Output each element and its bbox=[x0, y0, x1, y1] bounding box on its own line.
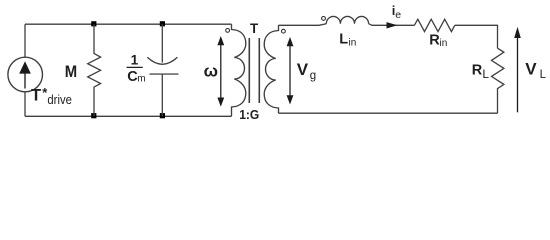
label RL bbox=[472, 62, 490, 81]
wire: left loop top rail bbox=[25, 23, 232, 25]
resistor Rin bbox=[414, 19, 454, 31]
svg-text:ω: ω bbox=[204, 62, 218, 81]
svg-text:V: V bbox=[525, 59, 537, 78]
transformer primary phasing dot bbox=[226, 29, 230, 33]
svg-text:1:G: 1:G bbox=[239, 107, 259, 122]
svg-text:in: in bbox=[440, 38, 448, 49]
Vg double arrow bbox=[287, 37, 294, 105]
capacitor Cm straight plate bbox=[150, 73, 179, 75]
svg-text:1: 1 bbox=[131, 52, 139, 67]
wire: Rin to right corner and down bbox=[455, 25, 498, 48]
transformer secondary phasing dot bbox=[282, 29, 286, 33]
label Vg bbox=[297, 60, 316, 82]
label VL bbox=[525, 59, 546, 81]
inductor Lin bbox=[326, 16, 368, 23]
transformer secondary winding bbox=[264, 25, 278, 113]
inductor Lin terminal circle bbox=[322, 17, 326, 21]
wire: right loop bottom rail bbox=[279, 112, 498, 114]
node: top junction dot at Cm bbox=[160, 21, 165, 26]
label Rin bbox=[429, 32, 447, 48]
current arrow i_e bbox=[387, 22, 398, 28]
svg-text:in: in bbox=[349, 37, 357, 48]
svg-text:L: L bbox=[339, 31, 348, 47]
svg-text:M: M bbox=[65, 63, 77, 81]
wire: inductor to resistor Rin bbox=[369, 24, 415, 26]
current source T*drive circle bbox=[8, 57, 43, 92]
svg-text:L: L bbox=[540, 69, 547, 81]
resistor M bbox=[88, 24, 101, 116]
svg-text:T: T bbox=[31, 86, 41, 104]
transformer primary winding bbox=[232, 24, 246, 116]
node: top junction dot at M bbox=[91, 21, 96, 26]
resistor RL bbox=[492, 48, 504, 113]
omega double arrow bbox=[217, 36, 224, 107]
wire: left vertical (source leads) bbox=[24, 24, 26, 116]
current source arrow bbox=[19, 61, 31, 88]
label Lin bbox=[339, 31, 356, 48]
node: bottom junction dot at Cm bbox=[160, 113, 165, 118]
svg-text:drive: drive bbox=[47, 92, 72, 107]
wire: secondary top to inductor bbox=[279, 24, 327, 26]
wire: left loop bottom rail bbox=[25, 115, 232, 117]
VL arrow bbox=[514, 27, 521, 112]
svg-text:m: m bbox=[137, 73, 145, 84]
transformer core line left bbox=[248, 38, 250, 103]
svg-text:V: V bbox=[297, 60, 309, 79]
svg-text:g: g bbox=[310, 70, 316, 82]
capacitor Cm top lead bbox=[161, 24, 163, 62]
label i_e bbox=[392, 3, 401, 21]
svg-text:e: e bbox=[395, 9, 401, 21]
capacitor Cm curved plate bbox=[147, 57, 177, 64]
svg-text:R: R bbox=[472, 62, 483, 78]
svg-text:L: L bbox=[482, 67, 489, 81]
transformer core line right bbox=[258, 38, 260, 103]
node: bottom junction dot at M bbox=[91, 113, 96, 118]
svg-text:T: T bbox=[250, 21, 259, 36]
capacitor Cm bottom lead bbox=[161, 74, 163, 116]
label T*_drive bbox=[31, 85, 72, 107]
label 1/Cm (fraction) bbox=[127, 52, 146, 85]
